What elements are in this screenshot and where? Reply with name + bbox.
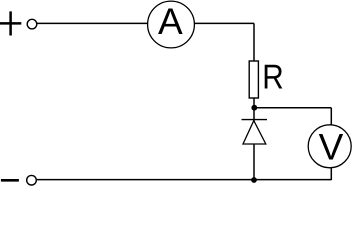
svg-text:R: R — [262, 58, 283, 96]
svg-text:V: V — [319, 126, 344, 167]
svg-text:A: A — [158, 1, 183, 42]
